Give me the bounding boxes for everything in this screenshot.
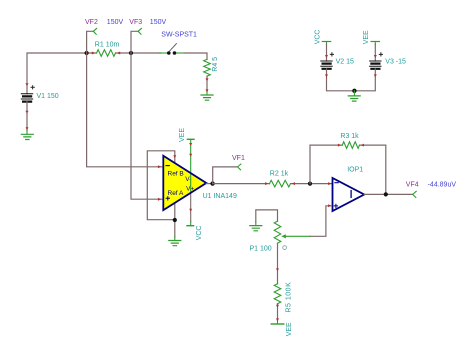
wire VCC bar to V2 xyxy=(326,45,328,62)
VCC rail of V2 xyxy=(314,30,330,45)
wire R4 to ground xyxy=(206,76,208,92)
ground under V1 xyxy=(21,134,33,139)
voltage flag VF3 xyxy=(129,19,166,53)
switch right pin xyxy=(176,52,184,54)
node dot feedback xyxy=(308,182,312,186)
wire U1 output to R2 xyxy=(213,183,270,185)
VCC supply pin of U1 xyxy=(187,193,203,241)
svg-text:150V: 150V xyxy=(150,19,167,26)
svg-text:R1 10m: R1 10m xyxy=(95,41,120,48)
node dot U1 output xyxy=(210,181,214,185)
svg-text:IOP1: IOP1 xyxy=(347,166,363,173)
potentiometer P1 wiper xyxy=(281,234,310,249)
svg-text:Ref A: Ref A xyxy=(168,190,185,197)
pin arrows red xyxy=(26,52,377,322)
svg-text:V2 15: V2 15 xyxy=(336,59,354,66)
op-amp IOP1 xyxy=(333,166,365,211)
svg-text:P1 100: P1 100 xyxy=(250,246,272,253)
voltage flag VF2 xyxy=(85,19,123,53)
wire U1 output xyxy=(206,183,212,185)
battery V3 xyxy=(370,53,406,69)
resistor R1 xyxy=(97,50,116,57)
VEE rail under R5 xyxy=(271,323,284,325)
svg-text:VCC: VCC xyxy=(314,30,321,45)
svg-text:R4 5: R4 5 xyxy=(212,57,219,72)
svg-text:V3 -15: V3 -15 xyxy=(385,59,406,66)
svg-text:SW-SPST1: SW-SPST1 xyxy=(161,32,197,39)
wire switch to R4 xyxy=(184,53,207,59)
wire R5 to VEE rail xyxy=(277,304,279,320)
svg-text:U1 INA149: U1 INA149 xyxy=(203,193,237,200)
op-amp U1 INA149 xyxy=(163,156,237,210)
svg-text:VEE: VEE xyxy=(363,30,370,44)
node dot under VF2 xyxy=(85,51,89,55)
potentiometer P1 body xyxy=(274,221,281,243)
resistor R5 xyxy=(274,284,281,304)
wire feedback loop xyxy=(310,145,386,194)
wire V3 to ground node xyxy=(354,69,375,91)
svg-text:VCC: VCC xyxy=(196,226,203,241)
wire pot top to ground xyxy=(256,210,278,222)
ground under R4 xyxy=(201,95,213,100)
switch SW-SPST1 contacts and lever xyxy=(167,44,176,55)
ground at pot top xyxy=(250,226,262,231)
wire V1 to ground xyxy=(26,102,28,131)
svg-text:150V: 150V xyxy=(107,19,124,26)
wire IOP1 output xyxy=(364,193,413,195)
switch SW-SPST1 left pin xyxy=(159,52,167,54)
svg-text:VEE: VEE xyxy=(286,322,293,336)
wire VEE bar to V3 xyxy=(374,45,376,62)
resistor R4 xyxy=(204,59,211,76)
svg-text:VF3: VF3 xyxy=(129,19,142,26)
resistor R3 xyxy=(342,142,359,149)
battery V1 xyxy=(21,86,58,102)
voltage flag VF4 xyxy=(406,181,457,197)
wire Ref loop of U1 xyxy=(147,151,175,220)
wire IOP1 plus input to pot wiper xyxy=(310,206,332,237)
svg-text:R5 100K: R5 100K xyxy=(286,282,293,313)
wire V2 to ground node xyxy=(327,69,355,91)
resistor R2 xyxy=(270,180,291,187)
wire R2 to IOP1 minus input xyxy=(291,183,332,185)
node dot supply ground xyxy=(352,89,356,93)
wire pot to R5 xyxy=(277,243,279,284)
svg-text:V1 150: V1 150 xyxy=(37,93,59,100)
svg-text:VF4: VF4 xyxy=(406,181,419,188)
battery V2 xyxy=(321,53,354,69)
ground under supplies xyxy=(353,91,355,96)
svg-text:VF2: VF2 xyxy=(85,19,98,26)
wire VF2 node to U1 minus input xyxy=(87,53,162,167)
VEE rail of V3 xyxy=(363,30,379,45)
ground under U1 ref xyxy=(169,241,181,246)
svg-text:R2 1k: R2 1k xyxy=(270,171,289,178)
svg-text:R3 1k: R3 1k xyxy=(340,133,359,140)
voltage flag VF1 xyxy=(213,155,245,184)
wire Ref A pin to ground xyxy=(174,203,176,237)
svg-text:VEE: VEE xyxy=(179,128,186,142)
wire rail R1 to switch xyxy=(116,52,161,54)
svg-text:VF1: VF1 xyxy=(232,155,245,162)
node dot under VF3 xyxy=(129,51,133,55)
wire V1 top rail xyxy=(27,53,97,94)
wire VF3 node to U1 plus input xyxy=(131,53,162,199)
node dot ref junction xyxy=(173,218,177,222)
svg-text:-44.89uV: -44.89uV xyxy=(428,181,457,188)
VEE supply pin of U1 xyxy=(179,128,194,193)
svg-text:Ref B: Ref B xyxy=(168,171,184,178)
op-amp U1 outline xyxy=(163,156,206,210)
node dot IOP1 output xyxy=(384,192,388,196)
